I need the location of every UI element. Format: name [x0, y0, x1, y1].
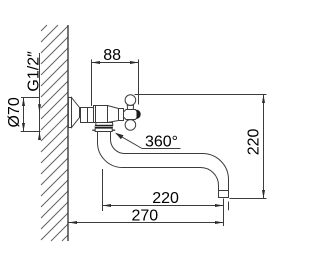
svg-text:G1/2″: G1/2″: [26, 51, 43, 92]
svg-text:220: 220: [245, 128, 262, 155]
svg-text:360°: 360°: [145, 134, 178, 151]
svg-text:220: 220: [152, 190, 179, 207]
svg-text:Ø70: Ø70: [6, 97, 23, 127]
svg-text:270: 270: [131, 207, 158, 224]
svg-text:88: 88: [103, 47, 121, 64]
